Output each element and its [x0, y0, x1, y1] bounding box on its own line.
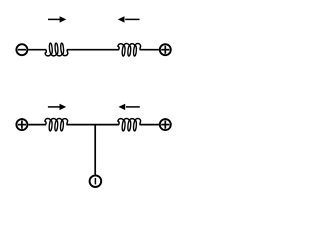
- inductor coil, top-left (loops upward): [45, 43, 68, 56]
- inductor coil, bottom-right (loops downward): [118, 118, 141, 131]
- current arrow above bottom-left inductor, pointing right: [48, 104, 66, 110]
- current source (circle with vertical bar) at bottom centre: [90, 175, 102, 187]
- wire from bottom-right inductor to right terminal: [140, 124, 159, 126]
- current arrow above top-left inductor, pointing right: [48, 16, 66, 22]
- positive terminal (circle with plus) top-right: [160, 44, 171, 55]
- positive terminal (circle with plus) bottom-left: [16, 119, 27, 130]
- positive terminal (circle with plus) bottom-right: [160, 119, 171, 130]
- inductor coil, bottom-left (loops downward): [45, 118, 68, 131]
- wire from top-right inductor to positive terminal: [140, 49, 159, 51]
- wire between the two top inductors: [67, 49, 119, 51]
- wire from bottom-left terminal to bottom-left inductor: [28, 124, 46, 126]
- wire between the two bottom inductors (through the tee junction): [67, 124, 120, 126]
- wire from negative terminal to top-left inductor: [28, 49, 46, 51]
- current arrow above top-right inductor, pointing left: [118, 16, 140, 22]
- vertical wire from tee junction down to current source: [94, 125, 96, 175]
- negative terminal (circle with minus) top-left: [16, 44, 27, 55]
- inductor coil, top-right (loops downward): [118, 44, 141, 57]
- current arrow above bottom-right inductor, pointing left: [119, 104, 140, 110]
